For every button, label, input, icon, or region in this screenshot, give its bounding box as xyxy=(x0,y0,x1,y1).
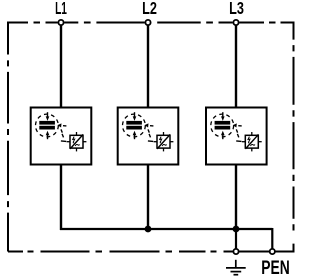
terminal PEN xyxy=(270,249,275,254)
surge arrow icon xyxy=(160,137,162,144)
spark gap module 2 (dashed circle) xyxy=(123,114,146,137)
svg-text:PEN: PEN xyxy=(261,257,290,279)
SPD module 2 box xyxy=(118,108,179,165)
trigger unit diagonal xyxy=(70,134,83,149)
SPD module 3 box xyxy=(206,108,267,165)
trigger unit module 2 (square) xyxy=(154,132,174,151)
trigger unit module 1 (square) xyxy=(67,132,87,151)
SPD module 1 box xyxy=(31,108,92,165)
electrode arrow bottom module 1 xyxy=(46,131,50,140)
electrode arrow top module 3 xyxy=(221,112,225,121)
junction dot at bus / SPD2 xyxy=(145,226,152,233)
enclosure border left (dash-dot) xyxy=(7,22,9,252)
electrode arrow bottom module 2 xyxy=(133,131,137,140)
trigger unit stubs xyxy=(67,132,87,151)
ground symbol below earth terminal xyxy=(226,260,246,275)
wire equipotential bus xyxy=(60,228,272,230)
wire SPD2 bottom down to bus xyxy=(147,164,149,230)
electrode arrow bottom module 3 xyxy=(221,131,225,140)
enclosure border bottom (dash-dot) xyxy=(8,251,217,253)
spark gap module 3 (dashed circle) xyxy=(211,114,234,137)
svg-text:L2: L2 xyxy=(142,0,157,18)
trigger unit module 3 (square) xyxy=(242,132,262,151)
surge arrow icon xyxy=(248,137,250,144)
terminal L1 xyxy=(58,20,63,25)
wire SPD3 bottom down to bus xyxy=(235,164,237,230)
trigger line module 3 (dashed with arrow) xyxy=(233,123,242,141)
wire bottom border solid segment through earth and PEN terminals xyxy=(224,251,294,253)
wire bus down to earth terminal xyxy=(235,229,237,250)
surge arrow icon xyxy=(73,137,75,144)
SPD module 2 xyxy=(118,108,179,165)
trigger unit diagonal xyxy=(245,134,258,149)
follow current icon xyxy=(251,144,256,146)
terminal L2 xyxy=(145,20,150,25)
spark gap electrodes module 1 xyxy=(39,121,55,130)
spark gap electrodes module 3 xyxy=(215,121,231,130)
follow current icon xyxy=(75,144,80,146)
wire L1 down to SPD module 1 xyxy=(60,25,62,109)
electrode arrow top module 2 xyxy=(133,112,137,121)
trigger line module 1 (dashed with arrow) xyxy=(58,123,67,141)
wire L2 down to SPD module 2 xyxy=(147,25,149,109)
spark gap electrodes module 2 xyxy=(126,121,142,130)
SPD module 1 xyxy=(31,108,92,165)
enclosure border right (dash-dot) xyxy=(293,22,295,253)
trigger unit stubs xyxy=(242,132,262,151)
junction dot at bus / SPD3 xyxy=(233,226,240,233)
enclosure border top (dash-dot) xyxy=(8,22,294,24)
terminal L3 xyxy=(233,20,238,25)
trigger unit diagonal xyxy=(157,134,170,149)
wire bus down to PEN terminal xyxy=(271,228,273,250)
follow current icon xyxy=(162,144,167,146)
trigger line module 2 (dashed with arrow) xyxy=(145,123,154,141)
trigger unit stubs xyxy=(154,132,174,151)
SPD module 3 xyxy=(206,108,267,165)
wire SPD1 bottom down to bus xyxy=(60,164,62,230)
svg-text:L3: L3 xyxy=(229,0,244,18)
svg-text:L1: L1 xyxy=(55,0,67,18)
electrode arrow top module 1 xyxy=(46,112,50,121)
spark gap module 1 (dashed circle) xyxy=(36,114,59,137)
terminal earth xyxy=(233,249,238,254)
wire L3 down to SPD module 3 xyxy=(235,25,237,109)
